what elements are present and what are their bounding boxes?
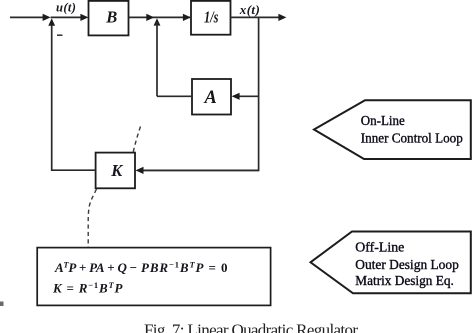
svg-text:Outer Design Loop: Outer Design Loop: [355, 258, 459, 273]
svg-text:On-Line: On-Line: [361, 114, 405, 129]
wire outer loop vertical up: [51, 21, 53, 171]
block A: [192, 79, 231, 115]
svg-text:Matrix Design Eq.: Matrix Design Eq.: [355, 274, 454, 289]
svg-text:Inner Control Loop: Inner Control Loop: [361, 131, 463, 146]
svg-text:u(t): u(t): [56, 0, 76, 14]
arrowhead mid after B: [146, 14, 154, 21]
dashed leader upper segment: [133, 127, 140, 152]
wire A feedback horizontal: [239, 95, 259, 97]
block K: [96, 153, 135, 189]
arrowhead into K: [136, 167, 144, 174]
arrowhead into 1/s: [183, 14, 191, 21]
equation box: [37, 248, 270, 306]
minus sign: [57, 34, 63, 36]
callout On-Line pentagon: [314, 100, 471, 159]
block B: [89, 1, 129, 36]
left edge smudge: [0, 302, 4, 307]
svg-text:x(t): x(t): [239, 2, 260, 17]
svg-text:B: B: [105, 7, 117, 26]
block 1/s: [191, 1, 231, 35]
svg-text:Off-Line: Off-Line: [355, 241, 404, 256]
wire A output to left: [157, 95, 192, 97]
svg-text:Fig. 7: Linear Quadratic Regul: Fig. 7: Linear Quadratic Regulator: [144, 320, 358, 333]
wire K output to left: [52, 169, 96, 171]
svg-text:K: K: [110, 161, 123, 180]
callout Off-Line pentagon: [311, 232, 471, 294]
arrowhead into summing junction: [43, 14, 51, 21]
wire 1/s to output: [231, 16, 280, 18]
wire K feedback horizontal: [142, 169, 259, 171]
wire input: [10, 16, 45, 18]
wire junction to B: [51, 16, 82, 18]
svg-text:1/s: 1/s: [204, 8, 219, 27]
wire A loop vertical up: [156, 22, 158, 96]
wire output vertical drop: [258, 17, 260, 171]
output arrowhead: [278, 14, 286, 21]
wire B to 1/s: [129, 16, 191, 18]
svg-text:PBR−1BTP = 0: PBR−1BTP = 0: [141, 260, 228, 276]
junction node with up arrow from A loop: [154, 18, 161, 25]
arrowhead up into summing junction: [48, 18, 55, 25]
arrowhead into B: [80, 14, 88, 21]
dashed leader lower segment: [88, 189, 96, 247]
svg-text:A: A: [204, 88, 217, 108]
arrowhead into A: [232, 93, 240, 100]
